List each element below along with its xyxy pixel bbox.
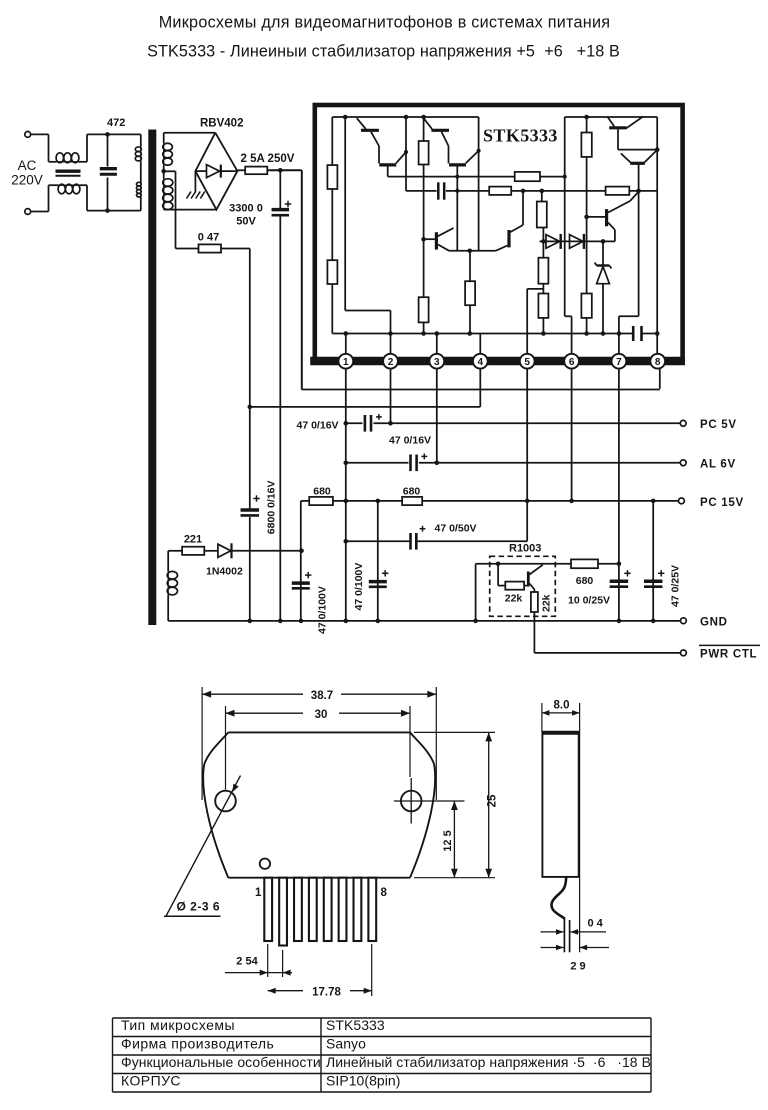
svg-text:Тип микросхемы: Тип микросхемы [121, 1017, 235, 1033]
svg-text:1N4002: 1N4002 [206, 566, 243, 578]
svg-text:RBV402: RBV402 [200, 118, 243, 130]
svg-text:8: 8 [655, 357, 661, 368]
svg-text:221: 221 [184, 534, 202, 546]
svg-text:1: 1 [343, 357, 349, 368]
svg-text:4: 4 [478, 357, 484, 368]
svg-text:STK5333: STK5333 [483, 126, 558, 146]
svg-text:47 0/100V: 47 0/100V [317, 586, 329, 634]
svg-text:680: 680 [403, 485, 421, 497]
svg-text:Ø 2-3 6: Ø 2-3 6 [177, 900, 221, 914]
svg-text:22k: 22k [541, 594, 553, 612]
svg-text:7: 7 [616, 357, 622, 368]
svg-text:47 0/16V: 47 0/16V [297, 419, 339, 431]
svg-text:STK5333: STK5333 [326, 1017, 385, 1033]
svg-text:Фирма производитель: Фирма производитель [121, 1036, 274, 1052]
svg-text:AC: AC [18, 158, 37, 173]
svg-text:8.0: 8.0 [554, 700, 570, 712]
svg-text:КОРПУС: КОРПУС [121, 1073, 181, 1089]
svg-text:AL 6V: AL 6V [700, 458, 736, 470]
svg-text:8: 8 [381, 887, 388, 899]
svg-text:30: 30 [315, 709, 328, 721]
svg-text:6800 0/16V: 6800 0/16V [266, 480, 278, 534]
svg-text:GND: GND [700, 617, 728, 629]
svg-text:47 0/16V: 47 0/16V [389, 434, 431, 446]
svg-text:22k: 22k [505, 593, 523, 605]
svg-text:50V: 50V [236, 216, 256, 228]
svg-text:47 0/25V: 47 0/25V [670, 565, 682, 607]
svg-text:SIP10(8pin): SIP10(8pin) [326, 1073, 400, 1089]
svg-text:R1003: R1003 [509, 543, 541, 555]
svg-text:3300 0: 3300 0 [229, 203, 263, 215]
svg-text:47 0/100V: 47 0/100V [353, 563, 365, 611]
svg-text:Микросхемы для видеомагнитофон: Микросхемы для видеомагнитофонов в систе… [159, 13, 611, 31]
svg-text:Функциональные особенности: Функциональные особенности [121, 1054, 321, 1070]
svg-text:3: 3 [434, 357, 440, 368]
svg-text:6: 6 [569, 357, 575, 368]
svg-text:2 5A 250V: 2 5A 250V [241, 153, 295, 165]
svg-text:PC 15V: PC 15V [700, 497, 744, 509]
svg-text:25: 25 [487, 794, 499, 807]
svg-text:680: 680 [313, 485, 331, 497]
svg-text:680: 680 [576, 575, 594, 587]
svg-text:Sanyo: Sanyo [326, 1036, 366, 1052]
svg-text:17.78: 17.78 [312, 986, 341, 998]
svg-text:1: 1 [255, 887, 262, 899]
svg-text:0 4: 0 4 [588, 918, 604, 930]
svg-text:Линейный стабилизатор напряжен: Линейный стабилизатор напряжения ·5 ·6 ·… [326, 1054, 651, 1070]
svg-text:2 54: 2 54 [236, 956, 258, 968]
svg-text:2 9: 2 9 [570, 961, 585, 973]
svg-text:472: 472 [107, 117, 125, 129]
svg-text:5: 5 [524, 357, 530, 368]
svg-text:PWR CTL: PWR CTL [700, 649, 757, 661]
svg-text:PC 5V: PC 5V [700, 419, 737, 431]
svg-text:STK5333 - Линеиныи стабилизато: STK5333 - Линеиныи стабилизатор напряжен… [147, 43, 620, 61]
svg-text:12 5: 12 5 [442, 830, 454, 851]
svg-text:220V: 220V [11, 173, 43, 188]
svg-text:10 0/25V: 10 0/25V [568, 594, 610, 606]
svg-text:2: 2 [388, 357, 394, 368]
svg-text:0 47: 0 47 [198, 232, 219, 244]
svg-text:38.7: 38.7 [311, 690, 333, 702]
svg-text:47 0/50V: 47 0/50V [435, 523, 477, 535]
